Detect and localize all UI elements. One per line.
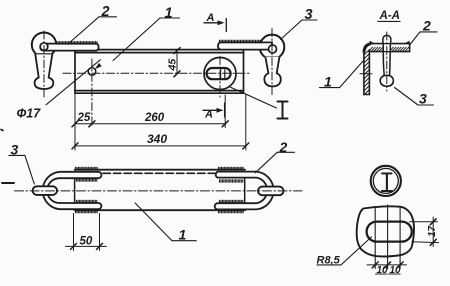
svg-text:50: 50	[80, 236, 93, 248]
svg-text:1: 1	[179, 227, 187, 243]
svg-text:А: А	[206, 12, 215, 24]
svg-text:2: 2	[101, 4, 110, 20]
svg-text:45: 45	[167, 59, 179, 72]
svg-text:25: 25	[77, 112, 91, 124]
svg-text:1: 1	[324, 74, 332, 90]
svg-text:10: 10	[377, 265, 389, 276]
svg-text:3: 3	[11, 142, 19, 158]
svg-text:А-А: А-А	[379, 10, 400, 22]
svg-text:3: 3	[419, 91, 427, 107]
svg-text:2: 2	[422, 18, 431, 34]
svg-text:260: 260	[144, 112, 165, 124]
svg-text:R8,5: R8,5	[317, 255, 341, 267]
svg-text:1: 1	[165, 6, 173, 22]
svg-text:Ф17: Ф17	[17, 107, 42, 121]
svg-text:3: 3	[305, 7, 313, 23]
svg-text:2: 2	[279, 139, 288, 155]
svg-text:340: 340	[147, 132, 167, 146]
svg-text:17: 17	[427, 225, 438, 237]
svg-text:А: А	[204, 108, 213, 120]
svg-text:10: 10	[390, 265, 402, 276]
